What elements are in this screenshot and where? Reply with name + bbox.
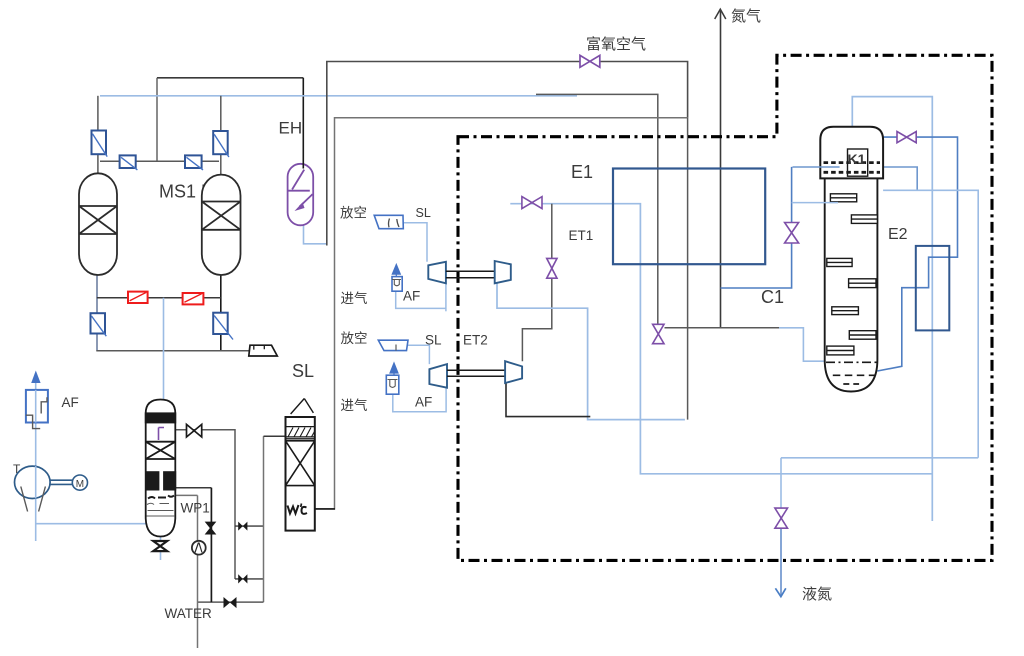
wire: ET1 booster bottom stub [445,283,447,311]
water pump column WP1 [146,400,176,537]
wire: K1 side via valve V6, steps down to C1 right (medium blue) [877,137,957,371]
wire: branch into C1 feed nozzle [792,202,838,204]
air compressor (circle with legs) [15,466,51,511]
wire: waste line from valve V3 to cold box right (gray then blue) [665,327,780,329]
condenser head with K1 [820,127,883,179]
svg-text:SL: SL [292,361,314,381]
valve (purple, vertical) reflux line [785,223,799,244]
electric heater EH [287,164,313,226]
motor M with shaft [50,475,87,490]
svg-text:液氮: 液氮 [802,586,832,603]
wire: N2 line to reflux valve V5 riser (medium blue) [721,167,792,288]
heat exchanger E2 [916,246,950,331]
air filter AF1 [392,265,402,291]
svg-text:E1: E1 [571,162,593,182]
wire: regeneration crossover with red valves [97,297,221,299]
valve (blue gate) MS2 top [213,131,229,157]
svg-text:进气: 进气 [341,291,368,306]
adsorber vessel MS2 [202,175,241,275]
silencer trapezoid (vent, black) [249,345,277,356]
adsorber vessel MS1 [79,173,117,275]
wire: AF1 filter to ET1 booster bottom (blue) [396,291,446,308]
wire: ET1 turbine outlet loop (blue) [497,283,685,419]
valve (black bowtie) WP1 gas outlet [187,424,202,437]
wire: nitrogen product riser (black) [720,11,722,328]
valve (purple, vertical) ET1 drain [547,258,557,278]
svg-text:SL: SL [425,333,442,348]
svg-text:T: T [13,462,21,476]
valve (purple, vertical) waste line [653,324,664,343]
wire: main blue air header (light blue) [100,95,577,97]
valve (purple) K1 gas line [897,132,916,143]
valve (blue gate) crossover left [120,155,138,170]
turboexpander ET2: booster trapezoid [429,364,447,388]
svg-text:AF: AF [415,395,432,410]
wire: blowdown leg [210,488,212,602]
wire: WC outlet stub [315,508,335,510]
valve (purple) ET1 discharge [522,197,542,209]
wire: vertical through E1 from rich-air corner [687,118,689,420]
wire: bypass link lower [235,578,264,580]
wire: MS top crossover [100,160,219,162]
wire: drop from top header to EH top [302,78,304,165]
valve (purple, vertical) liquid nitrogen [775,508,788,528]
wire: gray header continuation, down to purple valve V3 [536,94,658,324]
svg-text:E2: E2 [888,226,908,243]
wire: ET1 discharge line with valve V2 into E1 (blue) [510,204,932,474]
valve (black bowtie) bypass lower [238,574,247,583]
valve (black hourglass) blowdown leg [206,522,216,534]
turboexpander ET1: turbine trapezoid [495,261,511,283]
valve (purple) rich-oxygen air line [580,55,600,67]
wire: water drain leg with rotameter [197,495,199,648]
valve (blue gate) MS2 bottom [213,313,233,340]
compressor intake arrow [31,371,40,384]
svg-text:AF: AF [62,395,79,410]
valve (red gate) regen left [128,292,148,303]
valve (black bowtie) water supply [224,597,237,608]
wire: EH bottom outlet (blue) [304,225,327,244]
svg-text:M: M [76,479,84,490]
air filter AF (main) [26,390,48,429]
wire: vent header to silencer trapezoid [96,350,249,352]
svg-text:WP1: WP1 [181,501,210,516]
wire: compressor discharge to WP1 (light blue) [36,523,146,525]
wire: light blue elbow into C1 bottom [779,328,826,361]
wire: condenser step line right of head [882,167,917,190]
wire: WATER supply header [198,601,264,603]
wire: liquid nitrogen drawoff (blue) [780,458,782,518]
air filter AF2 [386,364,399,395]
overlay wires drawn on top of vessels [303,163,839,203]
cold box boundary (dash-dot) [458,55,992,560]
wire: return line to water-cooler WC [315,118,688,509]
wire: SL1 silencer to ET1 booster inlet (blue) [404,223,427,262]
water cooler column WC [286,399,315,531]
C1 tray bars [827,194,878,355]
svg-text:ET2: ET2 [463,333,488,348]
svg-text:富氧空气: 富氧空气 [586,35,646,53]
turboexpander ET2: turbine trapezoid [505,361,522,383]
wire: SL2 silencer to ET2 booster inlet (blue) [408,345,429,364]
wire: condenser line left stub into head [793,166,840,168]
wire: suction riser through AF filter (light blue) [35,382,37,541]
wire: MS regen gas top header (black) [157,77,303,79]
svg-text:放空: 放空 [340,206,367,221]
svg-text:C1: C1 [761,287,784,307]
svg-text:氮气: 氮气 [731,8,761,25]
svg-text:放空: 放空 [341,331,368,346]
wire: bottom header to liquid nitrogen valve [781,457,978,459]
wire: ET2 turbine outlet (black) [506,383,590,417]
svg-text:进气: 进气 [341,398,368,413]
svg-text:EH: EH [279,119,303,138]
wire: cooling water riser to WC [263,436,265,602]
valve (blue gate) MS1 bottom [91,313,107,336]
wire: WC feed stub [264,435,286,437]
turboexpander ET2: shaft [447,370,505,376]
turboexpander ET1: shaft [446,271,495,278]
wire: K1 condenser top to E2 long line (light blue) [852,97,932,521]
silencer SL1 trapezoid (blue) [374,215,403,228]
wire: ET1 drain via purple valve to ET2 turbine (gray) [522,204,551,362]
heat exchanger E1 [613,169,765,265]
label: MS1 (partly hidden by MS2 vessel) [159,182,238,202]
wire: rich-oxygen air line up-over (gray) with right drop [327,62,688,246]
svg-text:ET1: ET1 [569,228,594,243]
wire: C1 right to E2 right drop (light blue) [883,190,978,458]
valve (blue gate) crossover right [185,155,203,170]
wire: MS2 top riser [220,96,222,175]
valve (blue gate) MS1 top [92,131,108,157]
svg-text:K1: K1 [848,151,866,167]
svg-text:AF: AF [403,289,420,304]
wire: WP1 nozzle to blowdown valve leg [175,487,211,489]
wire: WP1 bottom stub [160,534,162,560]
wire: feed drop to WP1 (light blue) [163,298,165,406]
wire: WP1 side nozzle to drain leg [175,494,197,496]
valve (black hourglass) WP1 bottom drain [153,541,167,551]
wire: MS1 top riser [97,96,99,174]
valve (red gate) regen right [183,293,204,304]
turboexpander ET1: booster trapezoid [428,262,446,284]
wire: EH top stub inside vessel [302,163,304,169]
distillation column C1 body [825,179,878,392]
wire: WP1 gas outlet via valve to down-leg [175,430,235,579]
liquid nitrogen arrow [775,588,785,596]
wire: MS1 bottom drop [96,275,98,351]
wire: MS2 bottom drop [220,275,222,351]
wire: drop from top header to MS crossover [156,78,158,161]
svg-text:SL: SL [416,206,431,220]
wire: bypass link upper [235,525,264,527]
valve (black bowtie) bypass upper [238,522,247,531]
rotameter (circle with triangle) [192,541,206,555]
silencer SL2 trapezoid (blue) [378,340,408,350]
svg-text:WATER: WATER [165,606,212,621]
nitrogen vent arrow [715,9,726,19]
wire: AF2 filter to ET2 booster bottom (blue) [393,388,446,412]
C1 liquid level marks [826,361,877,363]
